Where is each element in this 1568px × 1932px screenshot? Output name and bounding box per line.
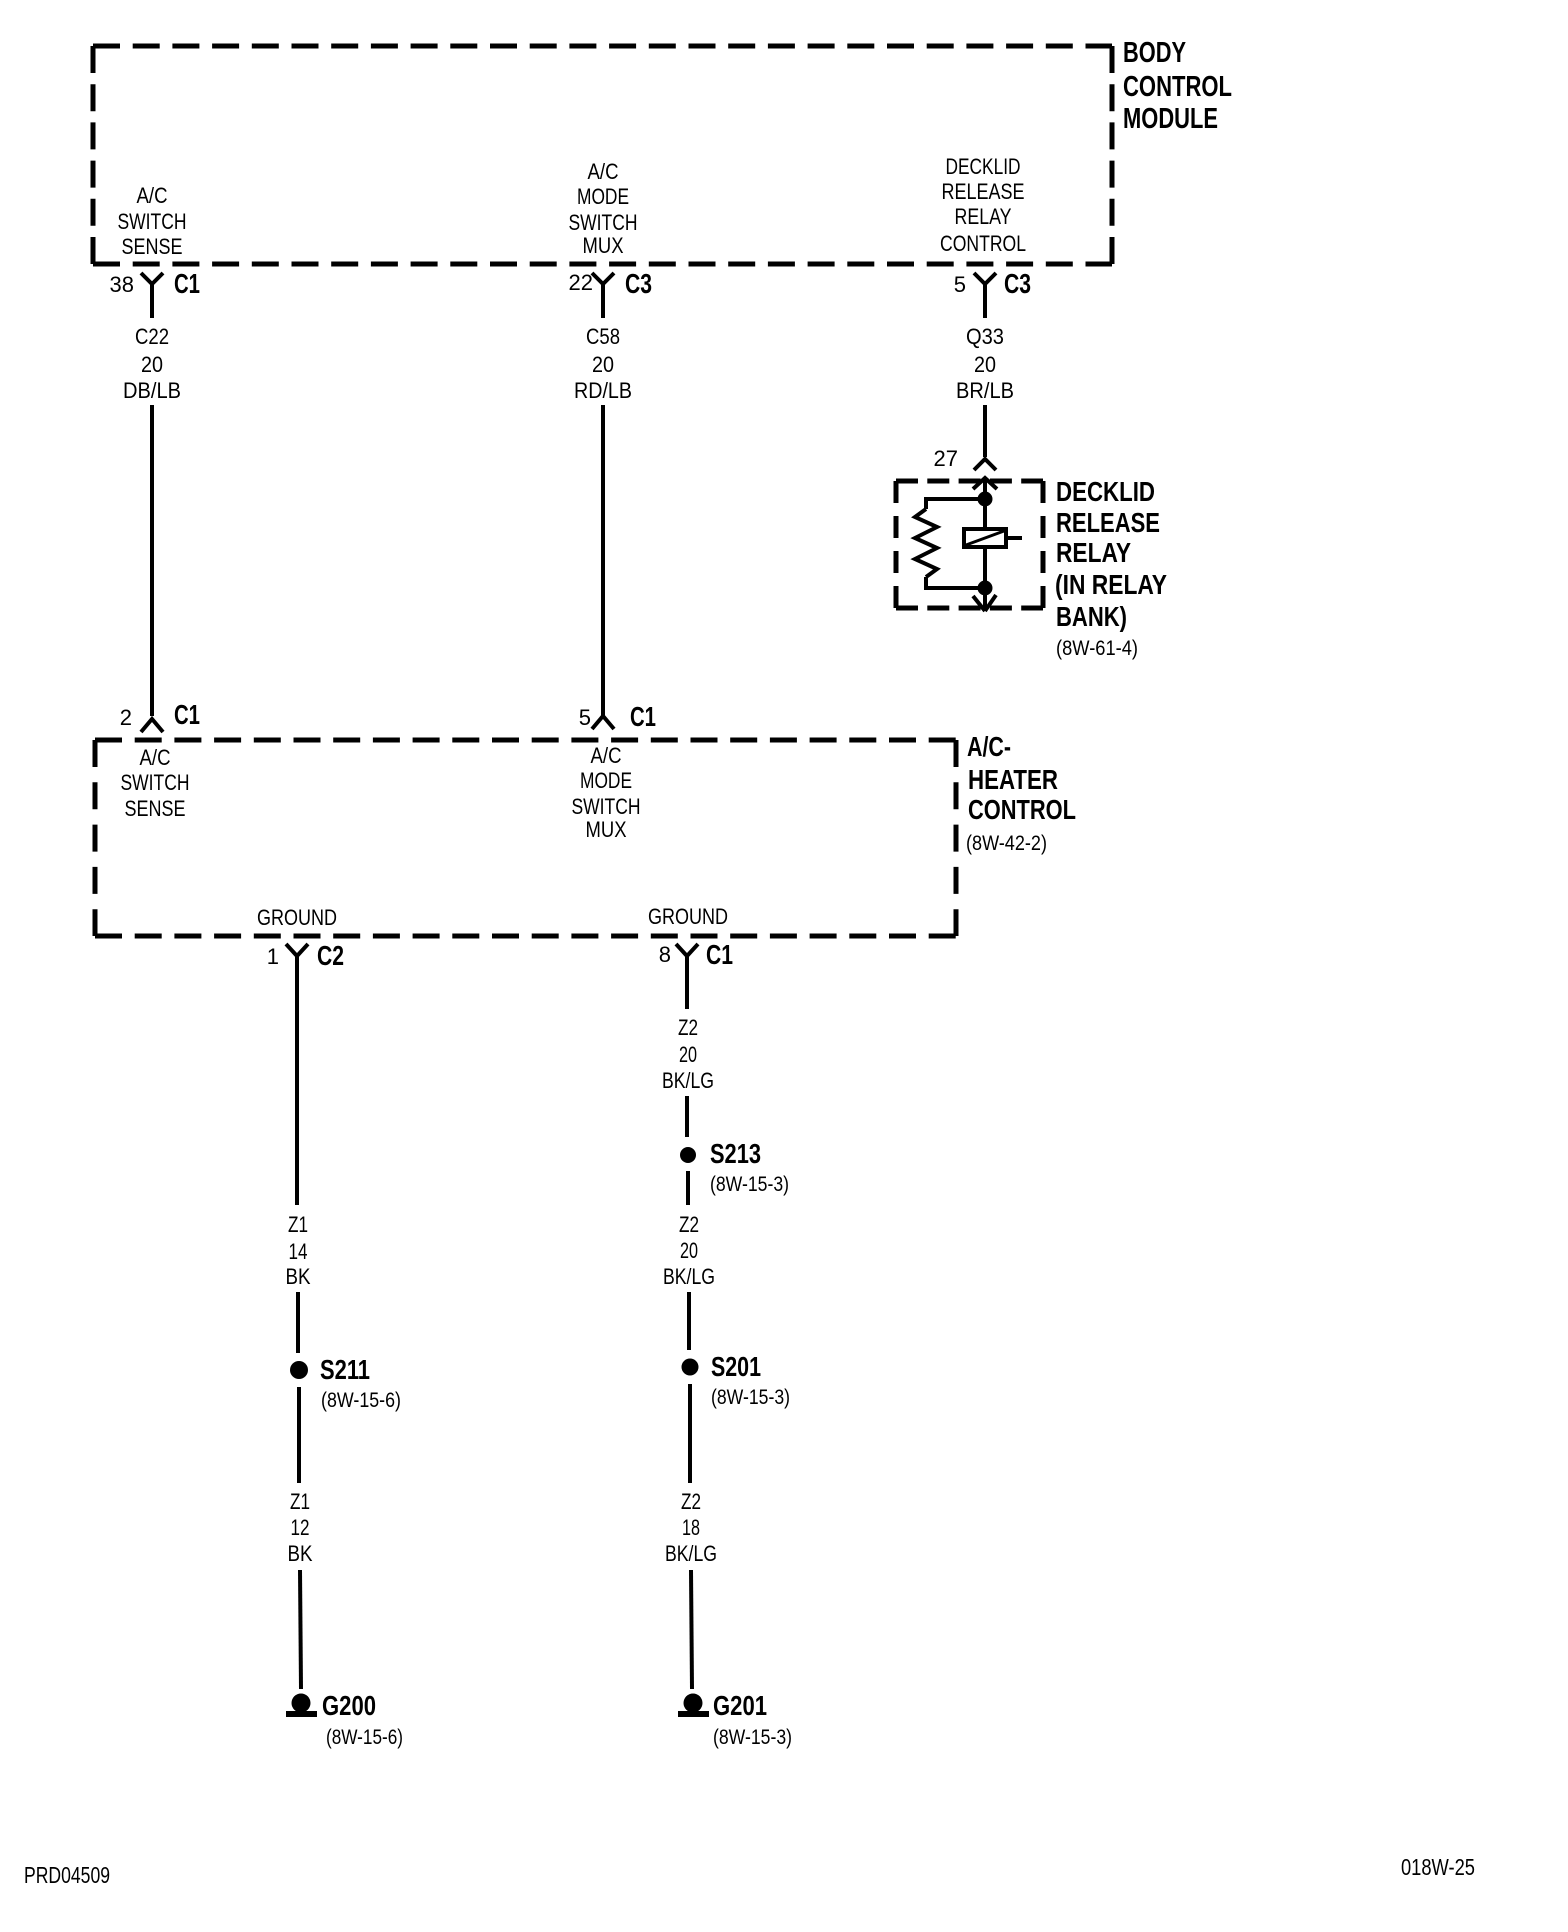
svg-text:Z2: Z2 [679,1212,699,1237]
svg-text:(8W-15-6): (8W-15-6) [326,1726,403,1749]
footer sheet number 018W-25 [1401,1854,1475,1880]
svg-text:(8W-15-3): (8W-15-3) [711,1386,790,1409]
wire label Z2 18 BK/LG (lower) [665,1489,717,1566]
svg-text:C3: C3 [1004,268,1031,299]
svg-text:20: 20 [679,1042,697,1067]
svg-text:MODE: MODE [580,768,632,793]
node: relay top junction [978,492,993,507]
svg-text:GROUND: GROUND [257,905,337,930]
svg-text:CONTROL: CONTROL [968,794,1076,825]
svg-text:20: 20 [974,352,996,377]
svg-text:MODULE: MODULE [1123,103,1218,135]
svg-text:A/C: A/C [140,745,171,770]
module box: A/C-HEATER CONTROL (dashed) [95,740,956,936]
svg-text:RELEASE: RELEASE [1056,507,1160,538]
svg-text:1: 1 [267,944,279,969]
connector pin 1 C2 (heater bottom) [267,940,344,1205]
svg-text:C2: C2 [317,940,344,971]
svg-text:C1: C1 [630,701,656,732]
svg-text:MODE: MODE [577,184,629,209]
svg-text:38: 38 [110,272,134,297]
svg-text:18: 18 [682,1515,700,1540]
wire: top branch to resistor [926,499,985,509]
wire to S201 [687,1292,691,1350]
svg-text:Q33: Q33 [966,324,1004,349]
connector pin 22 C3 (BCM) [569,268,652,318]
relay coil K1 [964,529,1022,547]
svg-text:SWITCH: SWITCH [569,210,638,235]
svg-text:S211: S211 [320,1354,370,1385]
svg-text:BODY: BODY [1123,37,1186,69]
svg-text:Z1: Z1 [290,1489,310,1514]
pin label GROUND (left) [257,905,337,930]
svg-text:DB/LB: DB/LB [123,378,181,403]
svg-text:C58: C58 [586,324,620,349]
wire S211 down [297,1387,301,1483]
wire C58 (middle vertical) [601,405,605,716]
wire: bottom branch from resistor [926,577,985,588]
svg-text:BK/LG: BK/LG [663,1264,715,1289]
wire: relay coil feed [983,478,987,529]
wire label Z1 14 BK (upper left) [286,1212,311,1289]
svg-text:PRD04509: PRD04509 [24,1862,110,1888]
svg-text:A/C: A/C [588,159,619,184]
svg-text:2: 2 [120,705,132,730]
svg-text:12: 12 [291,1515,310,1540]
wire to S211 [296,1292,300,1353]
svg-text:SWITCH: SWITCH [121,770,190,795]
svg-text:MUX: MUX [586,817,627,842]
pin label A/C SWITCH SENSE (BCM) [118,183,187,259]
svg-text:27: 27 [934,446,958,471]
svg-text:14: 14 [289,1239,308,1264]
svg-text:S201: S201 [711,1351,761,1382]
connector: relay bottom exit chevron [973,588,996,611]
component box: DECKLID RELEASE RELAY (dashed) [896,481,1043,608]
connector pin 5 C3 (BCM) [954,268,1031,318]
connector pin 38 C1 (BCM) [110,268,200,318]
label BODY CONTROL MODULE [1123,37,1232,135]
wire label Z1 12 BK (lower left) [288,1489,313,1566]
wire S213 down [686,1171,690,1205]
svg-text:RELEASE: RELEASE [942,179,1025,204]
svg-text:20: 20 [592,352,614,377]
svg-text:(8W-61-4): (8W-61-4) [1056,637,1138,660]
svg-text:20: 20 [680,1238,698,1263]
ground G200 [286,1690,403,1749]
svg-text:(8W-15-3): (8W-15-3) [713,1726,792,1749]
footer sheet number PRD04509 [24,1862,110,1888]
wire label Z2 20 BK/LG (upper) [662,1015,714,1093]
wire label Q33 20 BR/LB [956,324,1014,403]
svg-text:GROUND: GROUND [648,904,728,929]
svg-text:HEATER: HEATER [968,764,1058,795]
ground G201 [678,1690,792,1749]
connector 27 (relay pin, in-line chevrons) [934,446,997,489]
svg-text:5: 5 [579,705,591,730]
wire S201 down [688,1384,692,1483]
svg-text:BK/LG: BK/LG [662,1068,714,1093]
svg-text:(8W-15-3): (8W-15-3) [710,1173,789,1196]
svg-text:C1: C1 [174,268,200,299]
wire Q33 (right vertical) [983,405,987,457]
svg-text:22: 22 [569,270,593,295]
module box U1 BODY CONTROL MODULE (dashed) [93,46,1112,264]
svg-text:Z2: Z2 [681,1489,701,1514]
wire: coil to bottom junction [983,547,987,588]
svg-text:018W-25: 018W-25 [1401,1854,1475,1880]
svg-text:CONTROL: CONTROL [940,231,1026,256]
svg-text:BK: BK [286,1264,311,1289]
node: relay bottom junction [978,581,993,596]
svg-text:SWITCH: SWITCH [118,209,187,234]
label DECKLID RELEASE RELAY (IN RELAY BANK) (8W-61-4) [1055,476,1167,660]
splice S211 [290,1354,401,1412]
svg-text:20: 20 [141,352,163,377]
wire label C22 20 DB/LB [123,324,181,403]
svg-text:S213: S213 [710,1138,761,1169]
svg-text:DECKLID: DECKLID [1056,476,1155,507]
pin label A/C MODE SWITCH MUX (heater) [572,743,641,842]
svg-text:G200: G200 [322,1690,376,1721]
svg-text:Z2: Z2 [678,1015,698,1040]
wire label Z2 20 BK/LG (middle) [663,1212,715,1289]
svg-text:G201: G201 [713,1690,767,1721]
pin label A/C SWITCH SENSE (heater) [121,745,190,821]
svg-text:RD/LB: RD/LB [574,378,632,403]
wire to G200 [300,1570,301,1689]
wire to G201 [691,1570,692,1689]
svg-text:(IN RELAY: (IN RELAY [1055,569,1167,600]
connector pin 8 C1 (heater bottom) [659,939,733,1009]
splice S213 [680,1138,789,1196]
svg-text:SWITCH: SWITCH [572,794,641,819]
svg-text:BK: BK [288,1541,313,1566]
svg-text:CONTROL: CONTROL [1123,71,1232,103]
svg-text:C1: C1 [174,699,200,730]
pin label DECKLID RELEASE RELAY CONTROL (BCM) [940,154,1026,256]
svg-text:RELAY: RELAY [955,204,1012,229]
pin label A/C MODE SWITCH MUX (BCM) [569,159,638,258]
svg-text:C3: C3 [625,268,652,299]
connector pin 2 C1 (A/C-heater control) [120,699,200,732]
resistor (relay clamping element) [915,509,937,577]
wire label C58 20 RD/LB [574,324,632,403]
wire Z2 to S213 [685,1096,689,1137]
svg-text:A/C: A/C [137,183,168,208]
svg-text:BK/LG: BK/LG [665,1541,717,1566]
svg-text:SENSE: SENSE [125,796,186,821]
svg-text:BANK): BANK) [1056,601,1127,632]
svg-text:BR/LB: BR/LB [956,378,1014,403]
svg-text:A/C: A/C [591,743,622,768]
svg-text:(8W-15-6): (8W-15-6) [321,1389,401,1412]
svg-text:(8W-42-2): (8W-42-2) [966,832,1047,855]
label A/C- HEATER CONTROL (8W-42-2) [966,731,1076,855]
svg-text:C1: C1 [706,939,733,970]
svg-text:DECKLID: DECKLID [946,154,1021,179]
svg-text:C22: C22 [135,324,169,349]
wire C22 (left vertical) [150,405,154,716]
svg-text:SENSE: SENSE [122,234,183,259]
connector pin 5 C1 (A/C-heater control) [579,701,656,732]
svg-text:A/C-: A/C- [967,731,1011,762]
svg-text:Z1: Z1 [288,1212,308,1237]
svg-text:5: 5 [954,272,966,297]
splice S201 [682,1351,791,1409]
pin label GROUND (right) [648,904,728,929]
svg-text:RELAY: RELAY [1056,537,1131,568]
svg-text:8: 8 [659,942,671,967]
svg-text:MUX: MUX [583,233,624,258]
